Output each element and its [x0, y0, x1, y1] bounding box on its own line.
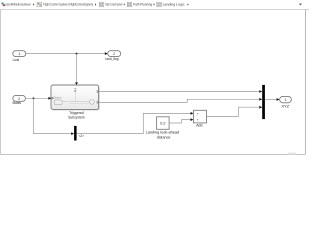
outport 1 XYZ	[280, 96, 292, 102]
wire Land to land_flag	[26, 53, 105, 55]
svg-text:States: States	[53, 96, 62, 100]
svg-text:Triggered: Triggered	[69, 111, 84, 115]
svg-text:+: +	[197, 112, 199, 116]
svg-text:Subsystem: Subsystem	[68, 116, 85, 120]
arrowhead into Add input 2	[191, 118, 194, 121]
arrowhead into bus selector	[71, 132, 74, 135]
svg-text:Land: Land	[13, 58, 20, 62]
wire subsystem out2 to mux input 2	[99, 99, 259, 102]
inport 2 States	[13, 95, 26, 101]
arrowhead into mux input 1	[259, 90, 262, 93]
breadcrumb subsystem icon 5	[157, 2, 162, 7]
breadcrumb final caret	[188, 3, 189, 5]
breadcrumb separator	[124, 3, 125, 5]
svg-text:distance: distance	[157, 136, 171, 140]
svg-text:land_flag: land_flag	[106, 57, 119, 61]
svg-text:1: 1	[285, 98, 287, 102]
junction on Land wire	[76, 53, 78, 55]
breadcrumb separator	[33, 3, 34, 5]
breadcrumb subsystem icon 4	[127, 2, 132, 7]
svg-text:Flight Control System (FlightC: Flight Control System (FlightControlSyst…	[43, 3, 93, 7]
subsystem outport mark 2	[97, 101, 99, 103]
arrowhead trigger down	[75, 82, 78, 85]
constant 0.2	[157, 117, 170, 130]
breadcrumb subsystem icon 2	[37, 2, 42, 7]
breadcrumb separator	[95, 3, 96, 5]
svg-text:parrotMinidroneHover: parrotMinidroneHover	[5, 3, 31, 7]
breadcrumb dropdown caret right	[299, 4, 302, 6]
svg-text:2: 2	[113, 52, 115, 56]
wire trigger (junction down to subsystem)	[76, 54, 78, 83]
wire mux to XYZ	[265, 99, 277, 101]
subsystem outport mark 1	[97, 91, 99, 93]
arrowhead into subsystem	[48, 97, 51, 100]
wire States to subsystem	[25, 97, 48, 99]
breadcrumb subsystem icon 3	[99, 2, 104, 7]
subsystem Triggered Subsystem	[51, 85, 100, 111]
bus selector bar	[74, 126, 77, 141]
svg-text:0.2: 0.2	[160, 122, 165, 126]
svg-text:1: 1	[18, 52, 20, 56]
bottom right scrollbar nub	[288, 153, 296, 155]
preview block	[54, 100, 62, 105]
preview wire	[62, 101, 89, 103]
label Triggered Subsystem	[68, 111, 85, 119]
arrowhead into land_flag	[105, 52, 108, 55]
svg-text:Add: Add	[196, 123, 202, 127]
canvas bottom border	[1, 154, 306, 156]
wire subsystem out1 to mux input 1	[99, 91, 259, 93]
mux bar	[262, 85, 265, 119]
subsystem inport mark	[51, 97, 53, 99]
arrowhead into Add input 1	[191, 112, 194, 115]
svg-text:Flight Control System: Flight Control System	[105, 3, 122, 7]
wire Z to Add input 1	[77, 113, 191, 133]
wire States branch to bus selector	[34, 98, 72, 133]
breadcrumb bar	[0, 9, 309, 11]
svg-text:States: States	[12, 101, 21, 105]
arrowhead into mux input 3	[259, 106, 262, 109]
canvas right border	[305, 10, 307, 155]
junction on States wire	[33, 97, 35, 99]
svg-text:XYZ: XYZ	[282, 105, 290, 109]
svg-text:+: +	[197, 118, 199, 122]
svg-text:Path Planning: Path Planning	[133, 3, 152, 7]
canvas left border	[0, 10, 2, 155]
wire Add to mux input 3	[207, 107, 260, 116]
arrowhead into mux input 2	[259, 98, 262, 101]
outport 2 land_flag	[108, 51, 121, 57]
svg-text:<Z>: <Z>	[79, 134, 84, 138]
wire constant to Add input 2	[169, 120, 191, 123]
trigger glyph	[74, 89, 77, 93]
label Landing look-ahead distance	[146, 131, 180, 140]
inport 1 Land	[13, 51, 26, 57]
breadcrumb separator	[154, 3, 155, 5]
preview trigger line	[74, 93, 76, 102]
breadcrumb model icon	[2, 3, 5, 7]
svg-text:Landing look-ahead: Landing look-ahead	[146, 131, 180, 135]
sum block Add	[194, 110, 207, 123]
preview circle	[90, 100, 95, 105]
arrowhead into XYZ	[277, 98, 280, 101]
svg-text:Landing Logic: Landing Logic	[163, 3, 185, 7]
